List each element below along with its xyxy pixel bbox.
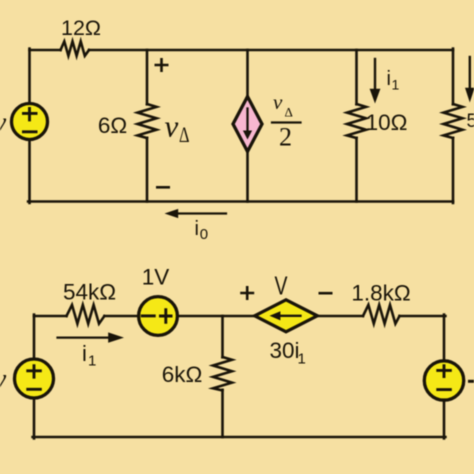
current arrow i1 bottom <box>58 337 110 339</box>
wire top: left node to 54k <box>34 315 67 318</box>
wire top horizontal left segment (source to 12 ohm) <box>30 49 61 52</box>
svg-text:54kΩ: 54kΩ <box>63 280 116 305</box>
wire 6ohm branch upper <box>146 50 149 104</box>
plus sign V label <box>240 286 254 300</box>
svg-text:2: 2 <box>279 123 292 152</box>
wire right vertical lower (bottom circuit) <box>443 400 446 439</box>
minus sign V label <box>319 292 333 295</box>
voltage source V4 <box>424 361 463 400</box>
wire 6ohm branch lower <box>146 138 149 202</box>
wire 1V to dependent source <box>177 315 255 318</box>
voltage source V1 <box>12 104 48 140</box>
svg-text:1: 1 <box>392 77 400 93</box>
resistor R3 10ohm <box>347 104 366 138</box>
U1 arrow down <box>246 109 248 132</box>
wire left vertical lower (bottom circuit) <box>33 398 36 439</box>
resistor R4 5ohm <box>444 104 463 138</box>
svg-text:v: v <box>273 90 283 114</box>
wire bottom of bottom circuit <box>33 436 446 439</box>
svg-text:v: v <box>165 109 179 144</box>
wire dependent source branch upper <box>246 50 249 97</box>
svg-text:Δ: Δ <box>285 105 293 120</box>
wire left vertical upper <box>28 49 31 104</box>
V1 plus sign <box>22 107 38 121</box>
V3 minus sign <box>26 388 42 391</box>
svg-text:0: 0 <box>200 226 208 243</box>
svg-text:1: 1 <box>88 353 96 370</box>
svg-text:10Ω: 10Ω <box>366 110 408 135</box>
wire left vertical lower <box>28 139 31 203</box>
dependent source U1 (vdelta/2) diamond <box>233 97 262 152</box>
wire 6k branch lower <box>221 390 224 437</box>
wire 54k to 1V source <box>104 315 139 318</box>
svg-text:i: i <box>195 218 199 240</box>
svg-text:5Ω: 5Ω <box>467 111 474 132</box>
wire 1.8k to right node <box>400 315 446 318</box>
voltage source V3 <box>15 359 54 398</box>
dependent source U2 (30 i1) diamond <box>255 300 318 332</box>
minus sign vdelta <box>156 186 170 189</box>
wire dependent source to 1.8k <box>317 315 363 318</box>
V4 minus sign <box>436 388 452 391</box>
svg-text:12Ω: 12Ω <box>61 16 101 40</box>
wire dependent source branch lower <box>246 151 249 202</box>
plus sign vdelta <box>155 58 169 72</box>
V2 plus sign <box>159 308 173 324</box>
svg-text:30i: 30i <box>270 338 300 363</box>
V4 plus sign <box>436 364 452 378</box>
svg-text:V: V <box>275 271 288 301</box>
V2 minus sign <box>141 314 156 317</box>
U2 arrow left <box>281 315 301 317</box>
svg-text:i: i <box>387 68 391 90</box>
resistor R5 54kohm <box>67 305 105 324</box>
svg-text:v: v <box>0 108 7 139</box>
wire 5ohm branch upper <box>452 49 455 105</box>
svg-text:Δ: Δ <box>179 122 190 147</box>
svg-text:v: v <box>0 364 7 395</box>
current arrow i0 (pointing left) <box>178 212 226 214</box>
wire right vertical upper (bottom circuit) <box>443 315 446 362</box>
current arrow i1 top <box>374 59 376 90</box>
wire 5ohm branch lower <box>452 138 455 203</box>
V3 plus sign <box>26 364 42 378</box>
resistor R2 6ohm <box>138 104 157 138</box>
wire 10ohm branch lower <box>355 138 358 202</box>
svg-text:1.8kΩ: 1.8kΩ <box>351 281 410 306</box>
svg-text:1V: 1V <box>142 265 170 290</box>
svg-text:1: 1 <box>298 351 306 368</box>
wire bottom of top circuit <box>28 200 453 203</box>
resistor R1 12ohm <box>61 41 90 55</box>
wire 6k branch upper <box>221 316 224 357</box>
svg-text:6Ω: 6Ω <box>98 113 127 138</box>
wire 10ohm branch upper <box>355 50 358 104</box>
V1 minus sign <box>22 130 38 133</box>
voltage source V2 1V <box>139 297 178 336</box>
svg-text:6kΩ: 6kΩ <box>162 362 203 387</box>
current arrow at right edge (cut) <box>469 57 471 89</box>
wire top horizontal right segment (12 ohm to 5 ohm branch) <box>89 49 453 52</box>
resistor R6 1.8kohm <box>363 305 400 324</box>
wire left vertical upper (bottom circuit) <box>33 315 36 360</box>
label fragment at right edge (cut) <box>470 380 474 383</box>
svg-text:i: i <box>82 341 87 366</box>
resistor R7 6kohm <box>213 357 232 391</box>
